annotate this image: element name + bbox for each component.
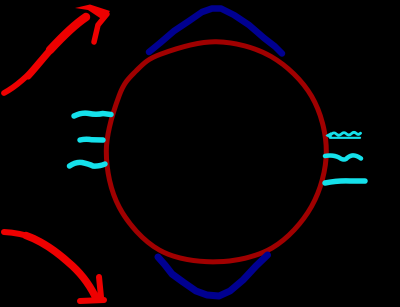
cyan dash left 1	[74, 113, 111, 116]
circle (membrane)	[106, 42, 326, 262]
red arrow top-left	[4, 5, 110, 94]
cyan dash left 3	[70, 162, 106, 166]
cyan dash left 2	[80, 136, 103, 142]
cyan wavy dash right 2	[325, 155, 361, 159]
blue chevron top	[149, 9, 282, 54]
red arrow bottom-left	[4, 232, 106, 302]
cyan scribble label right 1	[327, 132, 361, 138]
cyan dash right 3	[325, 181, 365, 183]
blue V bottom	[158, 255, 268, 296]
